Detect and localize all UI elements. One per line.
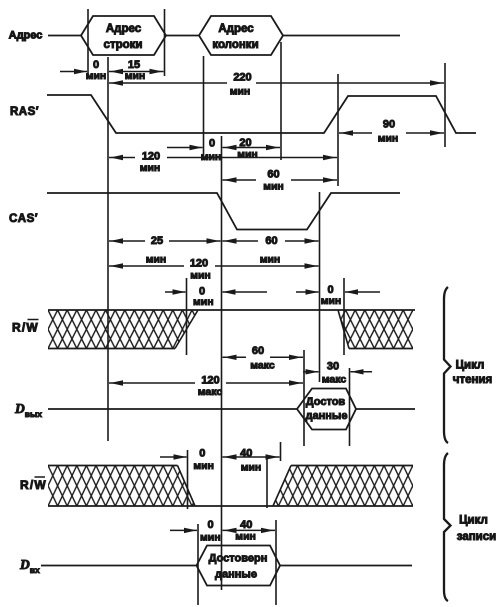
svg-text:40: 40 (240, 448, 252, 460)
svg-text:R/W: R/W (20, 478, 47, 492)
tick V4 RAS-low reference (203, 56, 205, 160)
svg-text:0: 0 (199, 448, 205, 460)
dimension 90 мин (RAS precharge) (339, 132, 372, 134)
svg-text:записи: записи (457, 531, 496, 543)
svg-text:макс: макс (198, 386, 223, 398)
svg-text:Адрес: Адрес (218, 23, 254, 35)
svg-text:60: 60 (252, 345, 264, 357)
svg-text:0: 0 (207, 519, 213, 531)
svg-text:220: 220 (233, 72, 251, 84)
wire: R/W write rising slope (273, 466, 291, 507)
wire: address line right stub (283, 35, 400, 37)
svg-text:мин: мин (146, 254, 167, 266)
dimension 0 мин (data setup write) (170, 529, 197, 531)
svg-text:мин: мин (125, 70, 146, 82)
svg-text:Адрес: Адрес (9, 30, 43, 42)
bus-valid hexagon: Адрес колонки (199, 16, 283, 55)
dimension 40 мин (data hold write) (223, 529, 276, 531)
wire: Dвх baseline left (41, 565, 197, 567)
svg-text:Цикл: Цикл (459, 515, 488, 527)
svg-text:Адрес: Адрес (106, 23, 142, 35)
svg-text:чтения: чтения (453, 374, 492, 386)
svg-text:колонки: колонки (212, 39, 258, 51)
svg-text:120: 120 (201, 375, 219, 387)
tick V5 long CAS-fall reference (221, 136, 223, 590)
tick V3 at row-address end (164, 9, 166, 76)
svg-text:Достов: Достов (306, 396, 346, 408)
wire: R/W read-row right hatch bottom edge (349, 348, 413, 350)
tick V13 column-address end reference (280, 42, 282, 160)
svg-text:мин: мин (260, 254, 281, 266)
svg-text:строки: строки (104, 39, 143, 51)
svg-text:Dвых: Dвых (14, 401, 42, 419)
svg-text:макс: макс (250, 360, 275, 372)
svg-text:40: 40 (240, 519, 252, 531)
dimension 120 мин (RAS to CAS delay) (109, 157, 135, 159)
tick V15 write-data valid start (197, 524, 199, 605)
wire: Dвых baseline left (48, 408, 297, 410)
dimension 220 мин (RAS cycle) (109, 82, 227, 84)
svg-text:0: 0 (209, 138, 215, 150)
svg-text:RAS′: RAS′ (10, 106, 39, 118)
svg-text:мин: мин (200, 532, 221, 544)
dimension 0 мин (R/W setup before CAS) (165, 291, 186, 293)
tick V8 at CAS rise (319, 192, 321, 382)
wire: R/W write-row bottom line (48, 505, 413, 507)
svg-text:Dвх: Dвх (19, 557, 40, 575)
dimension 60 макс (access from CAS) (223, 356, 247, 358)
tick V11 data hold reference (349, 368, 351, 446)
wire: R/W write falling slope (178, 466, 196, 507)
brace: read cycle bracket (444, 287, 451, 443)
dimension 40 мин (write command width) (223, 456, 280, 458)
tick V6b write R/W reference (187, 450, 189, 509)
tick write-data reference at 267 (266, 455, 268, 508)
dimension 120 макс (access from RAS) (109, 382, 195, 384)
dimension 15 мин (address hold) (109, 71, 164, 73)
wire: R/W write-row left hatch top edge (48, 465, 178, 467)
wire: Dвх baseline right (280, 565, 412, 567)
svg-text:мин: мин (235, 531, 256, 543)
dimension 0 мин (R/W hold after CAS) (296, 291, 319, 293)
brace: write cycle bracket (444, 453, 451, 601)
dimension 20 мин (address to CAS) (223, 147, 281, 149)
svg-text:25: 25 (151, 235, 163, 247)
svg-text:120: 120 (190, 258, 208, 270)
wire: CAS' waveform trace (47, 193, 400, 230)
dimension 60 мин (CAS low to RAS rise) (223, 179, 257, 181)
svg-text:мин: мин (190, 270, 211, 282)
svg-text:Достоверн: Достоверн (209, 553, 268, 565)
hatch region: R/W invalid after write (273, 466, 413, 507)
tick V2 long reference line (107, 57, 109, 441)
svg-text:данные: данные (215, 569, 257, 581)
svg-text:60: 60 (265, 235, 277, 247)
wire: R/W read-row top edge line (48, 309, 415, 311)
svg-text:мин: мин (263, 181, 284, 193)
tick V9 R/W hold reference (343, 278, 345, 355)
wire: R/W read transition slope (175, 310, 198, 349)
tick V12a right end of 40 мин (280, 442, 282, 461)
svg-text:R/W: R/W (12, 321, 39, 335)
tick V14 right end of 220 мин (444, 63, 446, 147)
tick V12b write-data hold reference (275, 520, 277, 605)
tick V10 data-valid reference (303, 350, 305, 446)
dimension 60 мин (CAS pulse width) (223, 240, 259, 242)
svg-text:мин: мин (86, 70, 107, 82)
svg-text:мин: мин (378, 133, 399, 145)
wire: RAS' waveform trace (47, 95, 476, 133)
hatch region: R/W invalid before write (48, 466, 195, 507)
svg-text:120: 120 (142, 151, 160, 163)
dimension 0 мин (R/W hold write) (160, 456, 187, 458)
hatch region: R/W invalid before read (48, 310, 198, 349)
tick V1 at row-address start (87, 9, 89, 76)
dimension 30 макс (output hold) (303, 371, 319, 373)
bus-valid hexagon: Достоверн данные (write data) (197, 546, 281, 586)
svg-text:мин: мин (140, 162, 161, 174)
svg-text:мин: мин (193, 460, 214, 472)
svg-text:мин: мин (241, 462, 262, 474)
wire: Dвых baseline right (356, 408, 415, 410)
wire: R/W read-row right transition slope (338, 310, 349, 349)
svg-text:CAS′: CAS′ (9, 213, 38, 225)
tick V7 at RAS rise (337, 74, 339, 186)
svg-text:макс: макс (322, 374, 347, 386)
svg-text:мин: мин (237, 149, 258, 161)
svg-text:30: 30 (327, 361, 339, 373)
hatch region: R/W invalid after read (338, 310, 413, 349)
svg-text:60: 60 (267, 169, 279, 181)
svg-text:данные: данные (306, 410, 348, 422)
wire: address line middle stub (166, 35, 199, 37)
bus-valid hexagon: Адрес строки (81, 16, 166, 55)
svg-text:мин: мин (321, 295, 342, 307)
wire: address line left stub (48, 35, 81, 37)
bus-valid hexagon: Достов данные (read data) (297, 389, 356, 430)
svg-text:90: 90 (383, 119, 395, 131)
dimension 0 мин (RAS to CAS) (167, 147, 203, 149)
dimension 0 мин (address setup) (60, 71, 87, 73)
dimension 120 мин (read cycle access) (109, 265, 184, 267)
wire: R/W write-row right hatch top edge (291, 465, 413, 467)
tick V6 R/W setup reference (186, 278, 188, 355)
svg-text:20: 20 (239, 137, 251, 149)
wire: R/W read-row left hatch bottom edge (48, 348, 175, 350)
dimension 25 мин (109, 240, 145, 242)
svg-text:мин: мин (230, 86, 251, 98)
svg-text:Цикл: Цикл (456, 360, 485, 372)
svg-text:мин: мин (193, 296, 214, 308)
